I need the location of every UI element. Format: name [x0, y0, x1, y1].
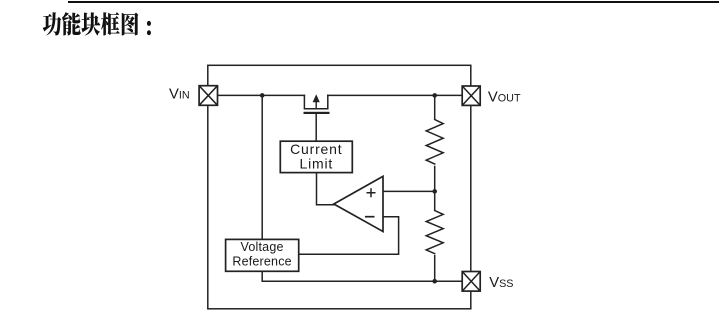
X of pin box VSS	[462, 272, 480, 292]
wire: Current Limit to op-amp apex	[317, 173, 334, 205]
svg-text:Limit: Limit	[300, 156, 334, 172]
junction dot on VIN rail	[260, 93, 265, 98]
pin box VOUT	[462, 86, 480, 105]
svg-text:VSS: VSS	[489, 275, 513, 291]
transistor Q1 gate wire down to Current Limit	[315, 114, 317, 141]
wire: VIN rail from VIN box to transistor	[218, 94, 305, 96]
svg-text:Reference: Reference	[232, 255, 291, 269]
wire: op-amp plus input to divider tap	[383, 190, 435, 192]
title 功能块框图：	[43, 12, 151, 36]
transistor Q1 channel dip	[304, 95, 327, 108]
wire: R2 to VSS rail	[434, 256, 436, 282]
op-amp minus sign	[365, 216, 375, 218]
junction dot divider tap	[432, 189, 437, 194]
svg-text:Voltage: Voltage	[241, 240, 284, 254]
transistor Q1 substrate arrow	[315, 99, 317, 109]
op-amp plus sign	[367, 188, 376, 197]
wire: Voltage Reference bottom to VSS rail	[262, 271, 462, 281]
resistor R1	[426, 120, 443, 165]
wire: VOUT rail down to resistor R1	[434, 95, 436, 118]
pin box VIN	[199, 86, 217, 106]
wire: junction A down to Voltage Reference	[261, 95, 263, 239]
transistor Q1 gate bar	[304, 112, 330, 114]
junction dot on VSS rail	[432, 279, 437, 284]
junction dot on VOUT rail	[432, 93, 437, 98]
X of pin box VOUT	[462, 86, 480, 105]
resistor R2	[426, 211, 443, 254]
svg-text:VOUT: VOUT	[488, 89, 521, 105]
IC boundary rectangle	[208, 65, 471, 308]
op-amp U1 triangle	[334, 176, 383, 231]
top horizontal rule	[68, 1, 719, 3]
Voltage Reference box	[226, 239, 299, 271]
wire: transistor to VOUT box	[328, 94, 462, 96]
wire: R1 to tap junction	[434, 167, 436, 210]
svg-text:VIN: VIN	[169, 87, 190, 103]
X of pin box VIN	[199, 86, 217, 106]
svg-text:Current: Current	[290, 141, 342, 157]
Current Limit box	[280, 141, 352, 172]
wire: op-amp minus input to Voltage Reference	[299, 217, 399, 255]
pin box VSS	[462, 272, 480, 292]
